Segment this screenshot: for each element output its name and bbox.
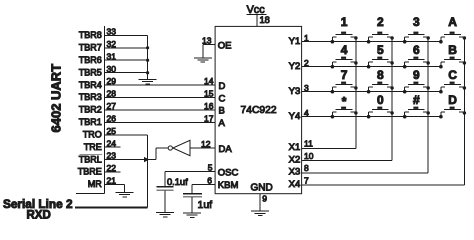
svg-text:16: 16 bbox=[204, 101, 214, 111]
svg-text:Y3: Y3 bbox=[289, 86, 301, 97]
svg-text:0.1uf: 0.1uf bbox=[167, 177, 188, 187]
svg-text:3: 3 bbox=[413, 15, 420, 29]
svg-text:6402 UART: 6402 UART bbox=[49, 64, 64, 133]
svg-text:TBRL: TBRL bbox=[79, 154, 102, 164]
svg-text:A: A bbox=[219, 118, 226, 129]
svg-text:X2: X2 bbox=[289, 154, 301, 165]
svg-text:D: D bbox=[448, 93, 457, 107]
svg-text:C: C bbox=[219, 93, 226, 104]
svg-text:TBR8: TBR8 bbox=[79, 30, 102, 40]
svg-text:TBR5: TBR5 bbox=[79, 67, 102, 77]
svg-text:TBR6: TBR6 bbox=[79, 55, 102, 65]
svg-text:MR: MR bbox=[88, 179, 102, 189]
svg-text:Y4: Y4 bbox=[289, 111, 301, 122]
svg-text:5: 5 bbox=[208, 163, 213, 173]
svg-text:KBM: KBM bbox=[218, 180, 239, 191]
svg-text:TBR4: TBR4 bbox=[79, 80, 102, 90]
svg-text:X3: X3 bbox=[289, 167, 301, 178]
svg-text:TRO: TRO bbox=[83, 130, 102, 140]
svg-text:9: 9 bbox=[413, 68, 420, 82]
svg-text:RXD: RXD bbox=[27, 210, 51, 222]
svg-text:TBRE: TBRE bbox=[78, 167, 102, 177]
svg-text:7: 7 bbox=[341, 68, 348, 82]
svg-text:10: 10 bbox=[304, 151, 314, 161]
svg-text:15: 15 bbox=[204, 89, 214, 99]
svg-text:Vcc: Vcc bbox=[247, 4, 266, 16]
svg-text:OSC: OSC bbox=[218, 167, 239, 178]
svg-text:D: D bbox=[219, 81, 226, 92]
svg-text:A: A bbox=[448, 15, 457, 29]
svg-text:TBR2: TBR2 bbox=[79, 105, 102, 115]
svg-text:TRE: TRE bbox=[84, 142, 102, 152]
svg-text:TBR1: TBR1 bbox=[79, 117, 102, 127]
svg-text:5: 5 bbox=[377, 43, 384, 57]
svg-text:C: C bbox=[448, 68, 457, 82]
svg-text:Y2: Y2 bbox=[289, 61, 301, 72]
svg-text:74C922: 74C922 bbox=[241, 105, 277, 116]
svg-text:B: B bbox=[448, 43, 457, 57]
svg-text:GND: GND bbox=[251, 182, 273, 193]
svg-text:4: 4 bbox=[341, 43, 348, 57]
svg-text:7: 7 bbox=[304, 175, 309, 185]
svg-text:18: 18 bbox=[260, 15, 270, 25]
svg-text:*: * bbox=[342, 95, 347, 109]
svg-text:1: 1 bbox=[341, 15, 348, 29]
svg-text:DA: DA bbox=[219, 144, 233, 155]
svg-text:14: 14 bbox=[204, 76, 214, 86]
svg-text:Y1: Y1 bbox=[289, 36, 301, 47]
svg-text:6: 6 bbox=[413, 43, 420, 57]
svg-text:#: # bbox=[413, 93, 420, 107]
svg-text:13: 13 bbox=[202, 36, 212, 46]
svg-text:1uf: 1uf bbox=[198, 199, 213, 211]
svg-text:9: 9 bbox=[262, 193, 267, 203]
svg-text:X4: X4 bbox=[289, 179, 301, 190]
svg-text:X1: X1 bbox=[289, 142, 301, 153]
svg-text:12: 12 bbox=[201, 139, 211, 149]
svg-text:11: 11 bbox=[304, 139, 313, 149]
svg-text:B: B bbox=[219, 106, 225, 117]
svg-text:2: 2 bbox=[377, 15, 384, 29]
svg-text:17: 17 bbox=[204, 113, 214, 123]
svg-text:0: 0 bbox=[377, 93, 384, 107]
svg-text:8: 8 bbox=[377, 68, 384, 82]
svg-text:8: 8 bbox=[304, 163, 309, 173]
svg-text:TBR3: TBR3 bbox=[79, 92, 102, 102]
svg-text:OE: OE bbox=[218, 40, 232, 51]
svg-text:6: 6 bbox=[207, 175, 212, 185]
svg-text:TBR7: TBR7 bbox=[79, 43, 102, 53]
